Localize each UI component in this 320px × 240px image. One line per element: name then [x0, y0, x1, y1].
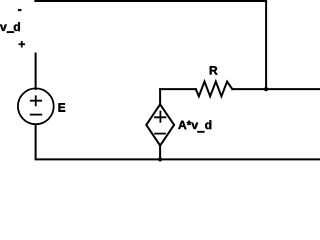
- dependent source plus sign: [154, 111, 166, 123]
- resistor R label: [210, 66, 218, 74]
- node label: v_d: [0, 22, 20, 31]
- wire: output node horizontal run toward resistor: [160, 88, 196, 90]
- junction dot on bottom rail: [158, 157, 162, 161]
- voltage source E minus sign: [30, 114, 42, 116]
- wire: dependent source bottom to bottom rail: [159, 145, 161, 159]
- voltage source E plus sign: [30, 95, 42, 106]
- wire: resistor through output junction to right edge: [232, 88, 320, 90]
- dependent source diamond body A*v_d: [146, 104, 174, 145]
- wire: source E bottom down and along bottom rail to right edge: [36, 125, 320, 160]
- dependent source label underscore: [197, 131, 204, 133]
- node label: plus sign of input v_d: [19, 41, 25, 47]
- node label: v_d underscore: [7, 31, 15, 33]
- dependent source value label A*v_d: [178, 120, 211, 129]
- voltage source E body: [18, 88, 54, 124]
- wire: top rail from minus input terminal across to output branch, down to output node: [35, 1, 266, 89]
- resistor R zigzag: [196, 82, 233, 97]
- wire: plus input terminal down to source E top: [35, 54, 37, 90]
- wire: from output run down to dependent source top: [159, 89, 161, 105]
- node label: minus sign of input v_d: [18, 9, 21, 10]
- voltage source E value label: [59, 103, 66, 111]
- dependent source minus sign: [154, 133, 166, 135]
- junction dot at output node: [264, 87, 268, 91]
